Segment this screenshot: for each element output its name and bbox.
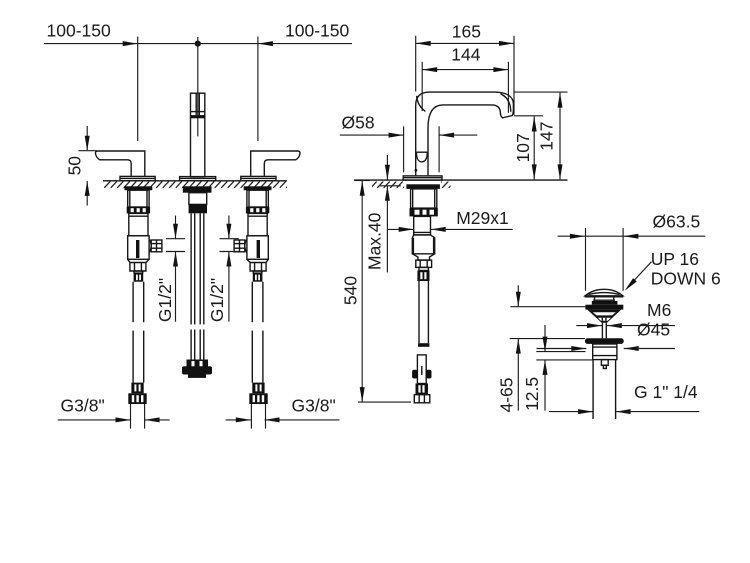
svg-text:G3/8": G3/8" (61, 395, 105, 415)
leader UP 16 / DOWN 6 (623, 249, 721, 292)
svg-text:12.5: 12.5 (522, 377, 542, 411)
handle left (lever) (95, 151, 144, 176)
taper and hex coupler (412, 254, 434, 271)
dimension 107 (513, 117, 537, 180)
handle right (lever) (251, 151, 300, 176)
dimension diameter 58 (340, 112, 478, 172)
valve body left (below deck) (120, 176, 162, 428)
spout base flange front (180, 177, 216, 181)
extension line left handle centre (137, 37, 139, 142)
dimension 50 (handle height) (65, 126, 97, 206)
svg-text:100-150: 100-150 (47, 20, 111, 40)
dimension diameter 63.5 (558, 211, 706, 290)
svg-text:M6: M6 (647, 300, 671, 320)
svg-text:Ø58: Ø58 (342, 112, 375, 132)
dot on riser edge (415, 169, 418, 172)
spout shank below deck (189, 193, 207, 214)
svg-text:DOWN 6: DOWN 6 (651, 268, 721, 288)
spout mouth inner arc (501, 94, 511, 112)
spout inner wall line (417, 96, 426, 112)
aerator dome inside riser (416, 152, 427, 162)
dimension G3/8 inch right (226, 395, 340, 422)
svg-text:Ø63.5: Ø63.5 (653, 211, 701, 231)
pop-up cap dome (585, 289, 624, 297)
dimension 144 (422, 45, 508, 113)
hose coupling ribbed (417, 271, 429, 282)
svg-text:4-65: 4-65 (496, 377, 516, 412)
reference line B (washer top) (510, 338, 585, 340)
cap neck (593, 297, 615, 300)
dimension G3/8 inch left (58, 395, 170, 422)
svg-text:G 1" 1/4: G 1" 1/4 (634, 382, 698, 402)
dimension 12.5 (522, 325, 548, 411)
centre line spout front (197, 37, 199, 136)
dimension G1/2 inch left (155, 216, 185, 323)
spout column front view (191, 93, 205, 177)
spout outline side view (416, 92, 514, 176)
reference line D (body bottom) (536, 359, 593, 361)
sleeve section (412, 235, 434, 254)
countertop hatching side view (372, 181, 404, 188)
dimension Max.40 (365, 155, 401, 272)
extension line spout mouth (514, 115, 543, 117)
reference line A (top of clamp range) (510, 306, 585, 308)
svg-text:G1/2": G1/2" (207, 278, 227, 322)
countertop deck line side view (354, 179, 568, 181)
svg-text:144: 144 (451, 45, 480, 65)
shank body side view (411, 189, 437, 208)
svg-text:M29x1: M29x1 (456, 208, 509, 228)
dark ring (592, 301, 618, 305)
svg-text:540: 540 (341, 276, 361, 305)
dimension 165 (spout reach) (416, 21, 514, 115)
dimension 540 (total height) (341, 181, 412, 403)
svg-text:107: 107 (513, 133, 533, 162)
countertop deck line front view (103, 180, 287, 182)
spout base flange side view (403, 176, 442, 180)
spout shank locknut side view (406, 184, 440, 189)
svg-text:G3/8": G3/8" (292, 395, 336, 415)
dimension G 1 inch 1/4 (549, 382, 699, 414)
svg-text:Max.40: Max.40 (365, 212, 385, 270)
svg-text:100-150: 100-150 (285, 20, 349, 40)
reference line C (536, 351, 585, 353)
dimension 4-65 (clamping range) (496, 285, 520, 412)
seat plate (585, 305, 623, 310)
spout locknut below deck (183, 186, 212, 192)
svg-text:UP 16: UP 16 (651, 249, 699, 269)
shank narrow section (414, 216, 431, 235)
valve body right (mirrored copy) (234, 176, 276, 428)
dimension diameter 45 (537, 320, 675, 351)
svg-text:G1/2": G1/2" (155, 278, 175, 322)
svg-text:165: 165 (452, 21, 481, 41)
dimension 100-150 (left, front view) (44, 20, 352, 46)
countertop hatching front view (104, 181, 287, 188)
tailpiece tube (593, 360, 616, 419)
centre hose connector block (182, 360, 212, 378)
centre hose side view (419, 281, 428, 343)
hose end cap (418, 343, 429, 347)
twin supply tubes lower segment (191, 330, 204, 360)
svg-text:147: 147 (537, 121, 557, 150)
funnel cone (587, 310, 621, 323)
twin supply tubes upper (191, 213, 204, 324)
drain body below washer (593, 344, 617, 360)
pop-up stem (602, 323, 606, 339)
svg-text:Ø45: Ø45 (637, 320, 670, 340)
dimension M6 (576, 300, 675, 328)
dimension M29x1 (387, 208, 513, 232)
check valve tube lower (412, 355, 431, 403)
dimension G1/2 inch right (207, 216, 239, 323)
svg-text:50: 50 (65, 156, 85, 176)
rubber washer flange (585, 338, 624, 344)
extension line right handle centre (257, 37, 259, 142)
dimension 147 (513, 92, 567, 179)
lift rod nub (601, 360, 608, 369)
thread ring M29 side view (410, 208, 438, 216)
